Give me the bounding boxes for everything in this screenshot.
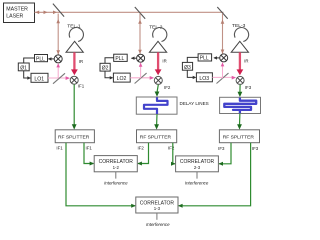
svg-text:IF2: IF2: [168, 146, 175, 151]
amplifier A1: [66, 41, 83, 52]
svg-text:IF1: IF1: [86, 145, 93, 150]
amplifier A3: [231, 41, 248, 52]
wire RF1 left output to correlator 1-3: [66, 143, 136, 208]
local oscillator LO1: [31, 73, 48, 82]
wire laser drop to TEL-3: [221, 14, 225, 54]
antenna dish TEL-1: [67, 24, 83, 42]
svg-text:IR: IR: [79, 59, 83, 64]
phase shifter Ø1: [18, 63, 29, 71]
wire IF3 to delay line 2: [238, 85, 243, 98]
RF splitter 1: [55, 130, 94, 143]
label interference 2-3: [185, 181, 209, 186]
label interference 1-2: [104, 181, 128, 186]
wire LO1 output (pink): [48, 76, 70, 80]
svg-text:IR: IR: [162, 59, 166, 64]
label IF1 right: [86, 145, 93, 150]
wire Ø1 to LO1: [24, 71, 31, 80]
IR signal arrow TEL-2: [155, 52, 167, 75]
svg-text:DELAY LINES: DELAY LINES: [180, 101, 209, 106]
svg-text:RF SPLITTER: RF SPLITTER: [223, 135, 255, 141]
label interference 1-3: [146, 222, 170, 227]
label IF3 right: [252, 146, 259, 151]
phase shifter Ø2: [100, 63, 110, 71]
label IF2 right: [168, 146, 175, 151]
svg-text:PLL: PLL: [36, 56, 45, 62]
svg-text:1-2: 1-2: [113, 165, 120, 170]
correlator 2-3: [176, 156, 219, 172]
mixer M3 (PLL mixer TEL-3): [220, 54, 228, 62]
svg-text:IF1: IF1: [78, 84, 85, 89]
label IF2 left: [138, 146, 145, 151]
svg-text:LO1: LO1: [34, 76, 44, 82]
wire RF3 right output to correlator 1-3: [178, 143, 251, 208]
wire splitter to M3 (pink up): [221, 62, 225, 78]
correlator 1-3: [136, 197, 178, 213]
wire M2 to PLL2: [131, 57, 137, 60]
wire LO2 output (pink): [130, 76, 154, 80]
wire IF2 to delay line 1: [155, 85, 160, 97]
svg-text:PLL: PLL: [200, 56, 209, 62]
wire DL1 to RF splitter 2: [154, 114, 159, 129]
wire Ø3 to LO3: [187, 70, 196, 79]
svg-text:MASTER: MASTER: [6, 7, 28, 13]
wire laser drop to TEL-1: [56, 14, 60, 55]
wire laser distribution bus: [35, 11, 224, 13]
wire PLL1 to phase shifter: [24, 58, 35, 63]
svg-text:LO3: LO3: [199, 76, 209, 82]
PLL U3: [198, 54, 212, 62]
svg-text:TEL-1: TEL-1: [67, 24, 81, 30]
svg-text:Ø2: Ø2: [102, 66, 109, 72]
svg-text:IF1: IF1: [56, 145, 63, 150]
antenna dish TEL-3: [232, 23, 249, 41]
svg-text:Interference: Interference: [185, 181, 209, 186]
svg-text:IF2: IF2: [164, 85, 171, 90]
local oscillator LO2: [113, 73, 130, 82]
svg-text:LASER: LASER: [6, 13, 23, 19]
svg-text:IR: IR: [244, 59, 248, 64]
wire RF2 left output to correlator 1-2: [137, 143, 148, 166]
label DELAY LINES: [180, 101, 209, 106]
IR signal arrow TEL-3: [237, 52, 249, 75]
wire splitter to M2 (pink up): [139, 63, 143, 79]
delay line DL2: [220, 97, 261, 113]
wire IF1 to RF splitter 1: [72, 84, 77, 129]
beam splitter BS2b (LO pickoff): [135, 73, 147, 83]
wire Ø2 to LO2: [105, 71, 113, 79]
wire M3 to PLL3: [213, 56, 219, 59]
wire DL2 to RF splitter 3: [237, 114, 242, 130]
svg-text:Interference: Interference: [104, 181, 128, 186]
phase shifter Ø3: [182, 62, 192, 70]
beam splitter BS3b (LO pickoff): [217, 73, 229, 83]
RF splitter 2: [137, 130, 177, 143]
mixer M2 (PLL mixer TEL-2): [137, 54, 145, 62]
wire RF1 right output to correlator 1-2: [84, 143, 94, 166]
beam splitter BS3: [217, 7, 227, 19]
svg-text:IF3: IF3: [218, 146, 225, 151]
amplifier A2: [149, 41, 166, 52]
PLL U2: [114, 54, 128, 62]
svg-text:RF SPLITTER: RF SPLITTER: [58, 135, 90, 141]
beam splitter BS2: [135, 7, 145, 19]
mixer M1 (PLL mixer TEL-1): [54, 55, 62, 63]
beam splitter BS1b (LO pickoff): [53, 73, 65, 83]
label IF3 left: [218, 146, 225, 151]
arrow double-headed master laser link: [35, 11, 57, 15]
wire M1 to PLL1: [48, 57, 54, 60]
svg-text:2-3: 2-3: [194, 165, 201, 170]
PLL U1: [35, 55, 48, 63]
wire PLL2 to phase shifter: [105, 58, 114, 63]
IR signal arrow TEL-1: [71, 52, 83, 75]
svg-text:RF SPLITTER: RF SPLITTER: [140, 135, 172, 141]
RF splitter 3: [219, 130, 259, 143]
beam splitter BS1: [53, 4, 64, 17]
svg-text:Ø3: Ø3: [184, 65, 191, 71]
mixer IF2 (signal mixer TEL-2): [154, 76, 171, 90]
svg-text:LO2: LO2: [117, 76, 127, 82]
correlator 1-3 output tick: [156, 213, 158, 220]
delay line DL1: [136, 97, 177, 114]
correlator 1-2: [94, 156, 137, 172]
svg-text:IF2: IF2: [138, 146, 145, 151]
svg-text:Interference: Interference: [146, 222, 170, 227]
antenna dish TEL-2: [149, 25, 167, 42]
mixer IF1 (signal mixer TEL-1): [70, 76, 85, 88]
mixer IF3 (signal mixer TEL-3): [236, 76, 252, 89]
wire PLL3 to phase shifter: [187, 57, 198, 62]
svg-text:IF3: IF3: [252, 146, 259, 151]
label IF1 left: [56, 145, 63, 150]
svg-text:1-3: 1-3: [154, 206, 161, 211]
correlator 1-2 output tick: [115, 172, 117, 179]
wire splitter to M1 (pink up): [56, 63, 60, 78]
svg-text:Ø1: Ø1: [20, 65, 27, 71]
wire LO3 output (pink): [212, 76, 236, 80]
correlator 2-3 output tick: [196, 172, 198, 179]
svg-text:PLL: PLL: [115, 56, 124, 62]
master laser box U0: [4, 3, 35, 23]
local oscillator LO3: [196, 73, 212, 82]
wire RF2 right output to correlator 2-3: [171, 143, 176, 166]
wire laser drop to TEL-2: [138, 14, 142, 54]
svg-text:IF3: IF3: [245, 85, 252, 90]
wire RF3 left output to correlator 2-3: [218, 143, 231, 166]
